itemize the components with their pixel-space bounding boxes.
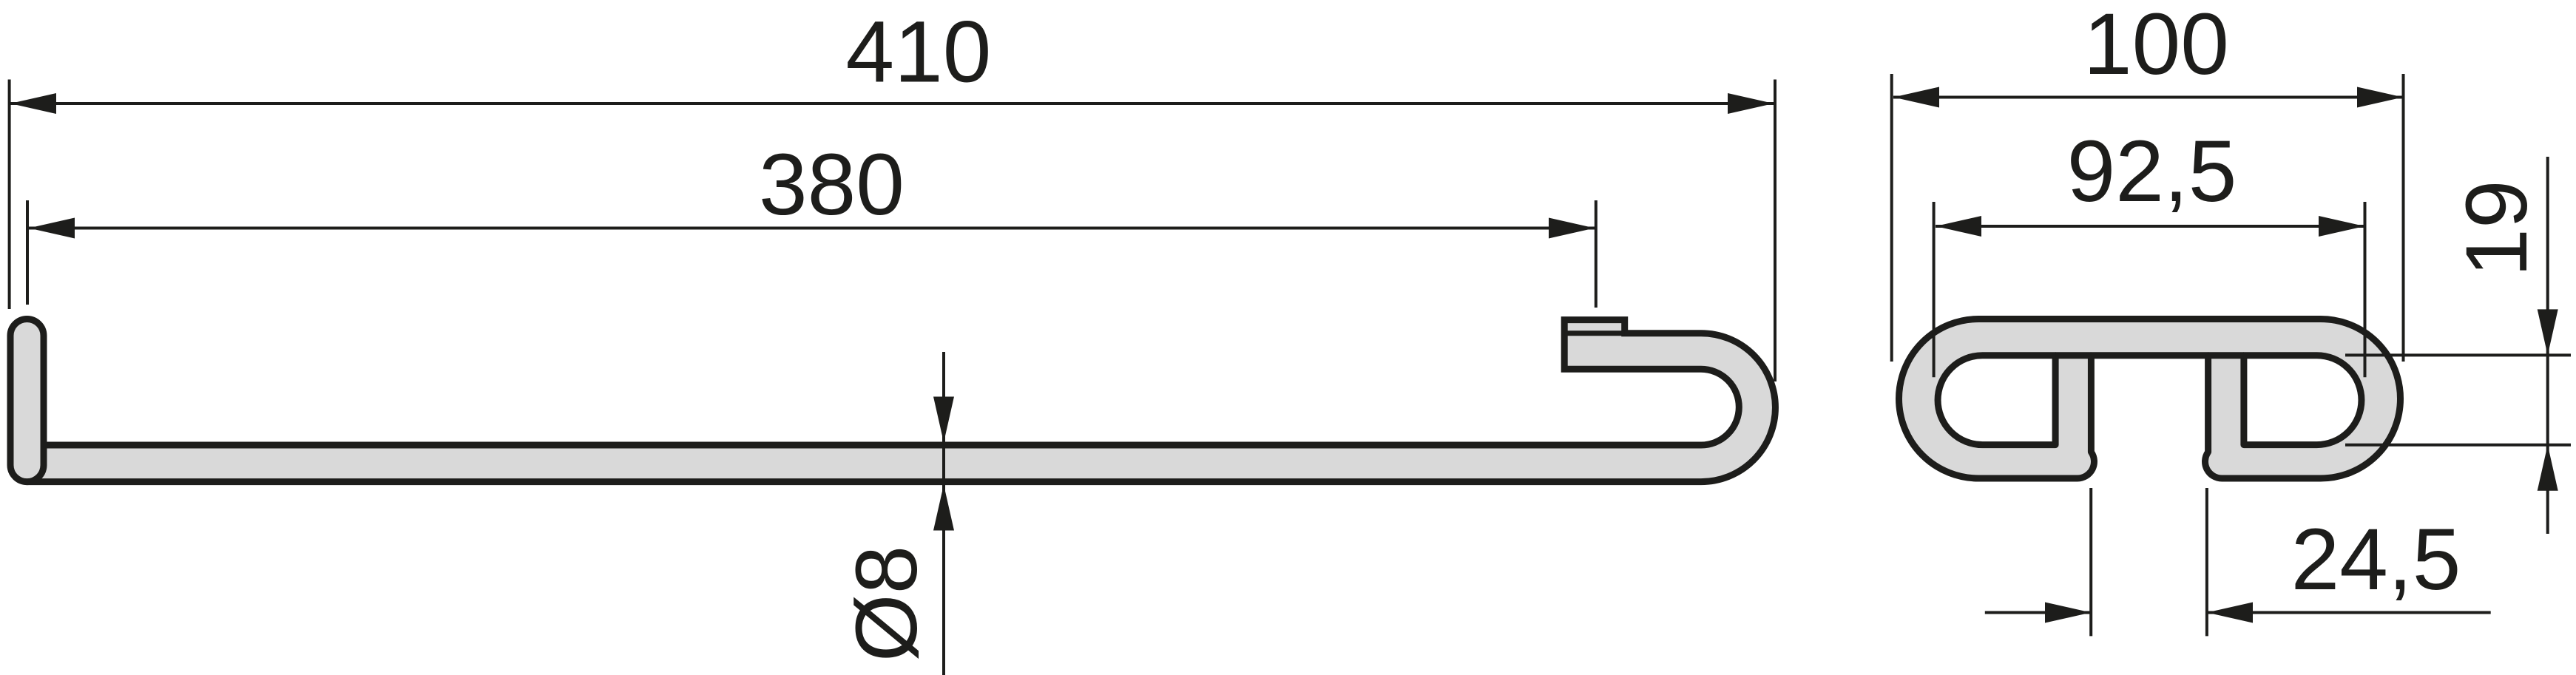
dimension 410 extension line right bbox=[1774, 80, 1777, 382]
svg-text:24,5: 24,5 bbox=[2291, 511, 2461, 608]
dimension 24,5 arrow left-pointing bbox=[2207, 603, 2253, 623]
svg-text:380: 380 bbox=[759, 136, 905, 234]
tab/bar separation line bbox=[1564, 330, 1625, 336]
left end capsule bbox=[10, 319, 44, 482]
cross-section profile bbox=[1899, 319, 2401, 479]
svg-text:Ø8: Ø8 bbox=[838, 546, 936, 662]
svg-text:92,5: 92,5 bbox=[2067, 123, 2237, 220]
dimension 92,5 extension line right bbox=[2364, 202, 2367, 377]
dimension 92,5 arrow right bbox=[2319, 216, 2364, 237]
svg-text:100: 100 bbox=[2083, 0, 2229, 93]
svg-text:19: 19 bbox=[2448, 180, 2546, 277]
dimension 100 arrow left bbox=[1893, 87, 1939, 108]
dimension 19 arrow down bbox=[2538, 309, 2558, 355]
dimension 100 line bbox=[1893, 96, 2403, 99]
dimension 24,5 line right segment bbox=[2207, 611, 2491, 614]
dimension 24,5 line left segment bbox=[1985, 611, 2091, 614]
dimension 19 extension line top bbox=[2345, 353, 2571, 356]
dimension 380 arrow right bbox=[1549, 218, 1595, 239]
dimension 24,5 extension line right bbox=[2205, 488, 2208, 636]
dimension 100 extension line right bbox=[2402, 74, 2405, 362]
dimension 92,5 extension line left bbox=[1933, 202, 1936, 377]
dimension diameter-8 arrow down bbox=[933, 397, 954, 443]
dimension 19 arrow up bbox=[2538, 445, 2558, 491]
dimension diameter-8 arrow up bbox=[933, 485, 954, 531]
dimension 380 extension line left bbox=[26, 200, 29, 305]
dimension 410 arrow left bbox=[10, 93, 56, 114]
dimension 380 extension line right bbox=[1595, 200, 1598, 308]
dimension 380 line bbox=[29, 227, 1595, 230]
dimension 92,5 line bbox=[1936, 225, 2364, 228]
side view rail (bar + hook + tab) bbox=[30, 320, 1775, 482]
dimension 19 extension line bottom bbox=[2345, 444, 2571, 447]
svg-text:410: 410 bbox=[846, 4, 992, 101]
dimension 410 extension line left bbox=[8, 80, 11, 310]
dimension 19 line bbox=[2546, 157, 2549, 534]
dimension 380 arrow left bbox=[29, 218, 75, 239]
dimension 92,5 arrow left bbox=[1936, 216, 1981, 237]
dimension 410 arrow right bbox=[1728, 93, 1774, 114]
profile inner top line over left leg bbox=[2055, 352, 2091, 359]
dimension 100 extension line left bbox=[1890, 74, 1893, 362]
profile inner top line over right leg bbox=[2208, 352, 2244, 359]
dimension 100 arrow right bbox=[2357, 87, 2403, 108]
dimension 410 line bbox=[10, 102, 1774, 105]
dimension diameter-8 line bbox=[942, 352, 945, 675]
dimension 24,5 extension line left bbox=[2089, 488, 2092, 636]
dimension 24,5 arrow right-pointing bbox=[2045, 603, 2091, 623]
